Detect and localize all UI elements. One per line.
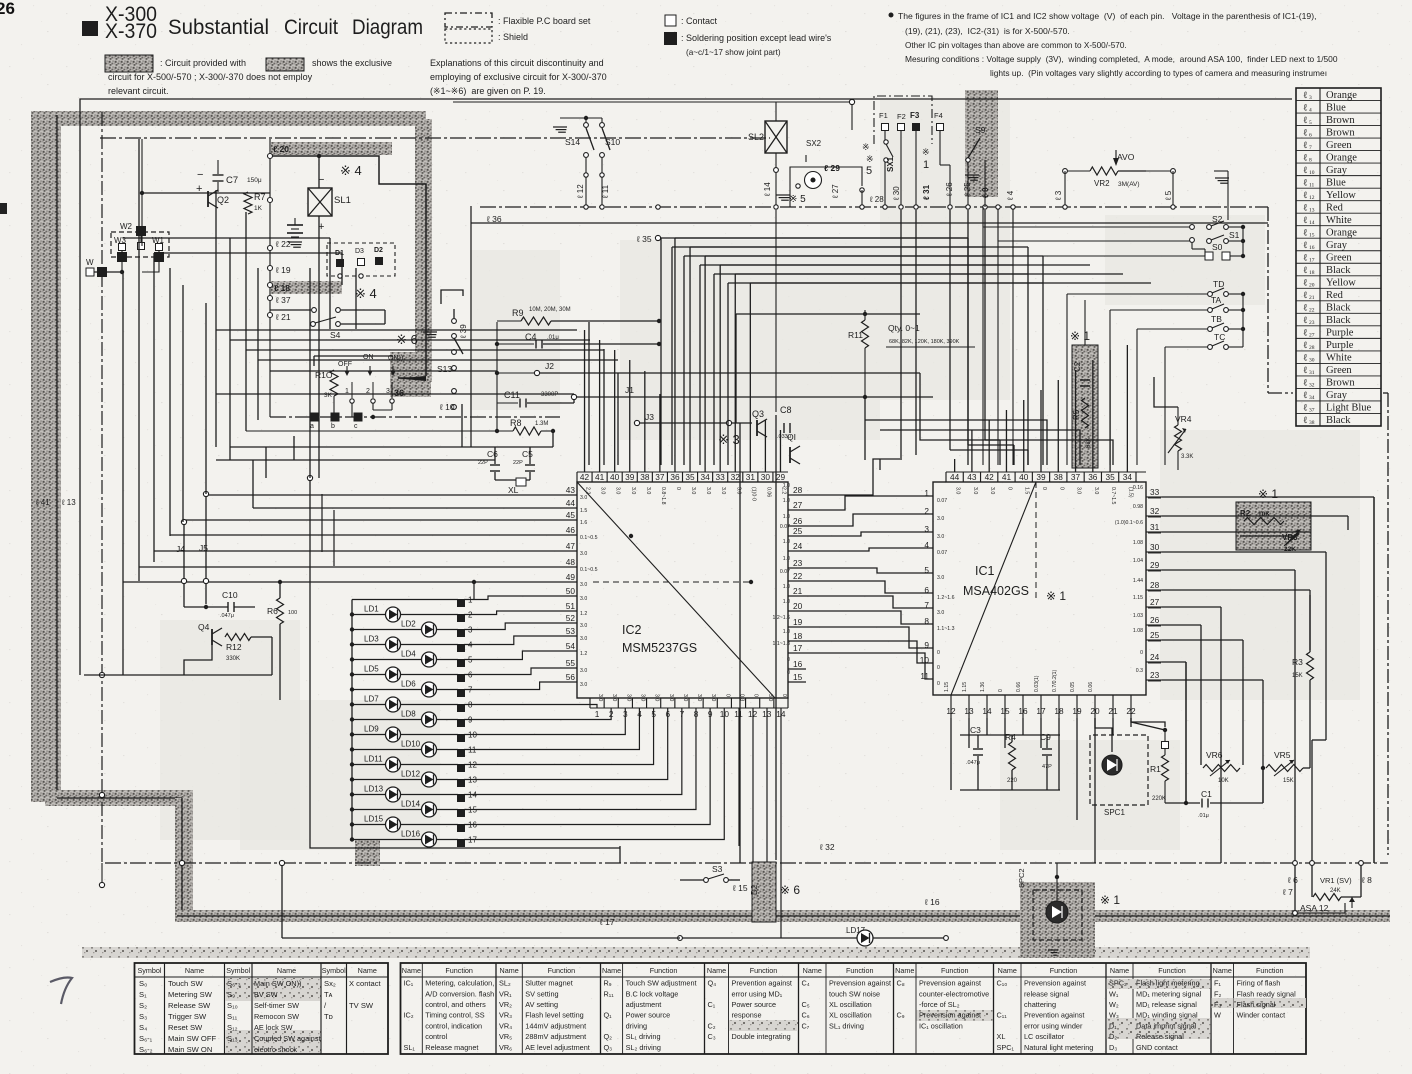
ground top left battery xyxy=(288,241,302,243)
svg-text:3.0: 3.0 xyxy=(654,694,660,701)
svg-text:F3: F3 xyxy=(910,111,920,120)
svg-text:0: 0 xyxy=(937,681,940,687)
ground SPC2 xyxy=(1048,949,1058,951)
svg-text:3.0: 3.0 xyxy=(937,516,944,522)
svg-text:LD6: LD6 xyxy=(401,680,416,689)
svg-text:0.16: 0.16 xyxy=(1133,485,1143,491)
svg-text:38: 38 xyxy=(1054,472,1064,482)
svg-text:ℓ 20: ℓ 20 xyxy=(273,144,289,154)
svg-text:Name: Name xyxy=(402,966,421,975)
svg-text:3.0: 3.0 xyxy=(580,551,587,557)
svg-text:1.2~1.6: 1.2~1.6 xyxy=(773,615,791,621)
svg-text:Sx₂: Sx₂ xyxy=(324,979,336,988)
svg-text:3.0: 3.0 xyxy=(611,694,617,701)
svg-text:D₁: D₁ xyxy=(1109,1021,1117,1030)
svg-text:47: 47 xyxy=(566,541,576,551)
hatch C2 R5 column xyxy=(1072,345,1098,468)
svg-text:QI: QI xyxy=(787,432,796,442)
svg-text:3.3K: 3.3K xyxy=(1181,454,1193,460)
svg-text:R9: R9 xyxy=(512,308,524,318)
wire LED line1 top drop xyxy=(473,582,475,600)
wire SL2 top xyxy=(453,101,852,103)
wire upper-left nest verticals xyxy=(329,238,331,329)
solenoid SL1 xyxy=(308,188,332,216)
svg-text:1.3M: 1.3M xyxy=(535,421,548,427)
svg-text:ℓ 29: ℓ 29 xyxy=(824,163,840,173)
svg-text:※ 5: ※ 5 xyxy=(789,194,806,205)
svg-text:ℓ 22: ℓ 22 xyxy=(275,239,291,249)
svg-text:ℓ: ℓ xyxy=(1303,228,1308,238)
svg-text:Black: Black xyxy=(1326,415,1351,426)
svg-text:employing of exclusive circuit: employing of exclusive circuit for X-300… xyxy=(430,72,607,82)
resistor R12 xyxy=(225,634,251,641)
svg-text:3.0: 3.0 xyxy=(690,487,696,494)
svg-text:ℓ: ℓ xyxy=(1303,316,1308,326)
svg-text:C10: C10 xyxy=(222,590,238,600)
svg-text:0: 0 xyxy=(937,665,940,671)
svg-text:68K, 82K, 120K, 180K, 390K: 68K, 82K, 120K, 180K, 390K xyxy=(889,339,960,345)
svg-text:1.0: 1.0 xyxy=(783,556,790,562)
svg-text:Brown: Brown xyxy=(1326,378,1355,389)
svg-text:42: 42 xyxy=(580,472,590,482)
shield band left xyxy=(31,111,61,802)
legend soldering square xyxy=(665,33,677,45)
svg-text:Release magnet: Release magnet xyxy=(425,1043,478,1052)
svg-text:VR6: VR6 xyxy=(1206,750,1223,760)
svg-text:F1: F1 xyxy=(879,111,888,120)
svg-text:J3: J3 xyxy=(645,412,654,422)
svg-text:S₆-₁: S₆-₁ xyxy=(139,1034,153,1043)
photodiode SPC2 block xyxy=(1020,882,1095,958)
svg-text:3.0: 3.0 xyxy=(972,487,978,494)
ground S14 xyxy=(553,126,567,128)
svg-text:Green: Green xyxy=(1326,140,1352,151)
legend contact square xyxy=(665,15,676,26)
svg-text:C₆: C₆ xyxy=(802,1011,810,1020)
svg-text:A/D conversion. flash: A/D conversion. flash xyxy=(425,989,494,998)
svg-text:ℓ 13: ℓ 13 xyxy=(61,498,76,507)
svg-text:1: 1 xyxy=(595,709,600,719)
shield band corner horizontal xyxy=(45,790,193,806)
svg-text:ℓ: ℓ xyxy=(1303,366,1308,376)
svg-text:S1: S1 xyxy=(1229,230,1240,240)
svg-text:S₃: S₃ xyxy=(139,1012,147,1021)
svg-text:Yellow: Yellow xyxy=(1326,278,1356,289)
svg-text:28: 28 xyxy=(1309,345,1315,351)
svg-text:Brown: Brown xyxy=(1326,127,1355,138)
svg-text:control, indication: control, indication xyxy=(425,1021,482,1030)
svg-text:Prevention against: Prevention against xyxy=(1024,1011,1084,1020)
wire R10 to bus xyxy=(333,396,335,417)
svg-text:C6: C6 xyxy=(487,449,498,459)
svg-text:※ 1: ※ 1 xyxy=(1100,893,1120,907)
dash-dot bus middle xyxy=(480,206,1268,208)
svg-text:Qty. 0~1: Qty. 0~1 xyxy=(888,323,920,333)
svg-text:3K: 3K xyxy=(324,392,333,399)
svg-text:ℓ 12: ℓ 12 xyxy=(576,184,585,199)
svg-text:3.0: 3.0 xyxy=(580,682,587,688)
svg-text:24K: 24K xyxy=(1330,888,1341,894)
svg-text:ℓ: ℓ xyxy=(1303,304,1308,314)
svg-text:Function: Function xyxy=(1158,966,1186,975)
svg-text:Diagram: Diagram xyxy=(352,16,423,39)
svg-text:38: 38 xyxy=(640,472,650,482)
svg-text:J5: J5 xyxy=(199,543,208,553)
svg-text:X contact: X contact xyxy=(349,979,382,988)
svg-text:Yellow: Yellow xyxy=(1326,190,1356,201)
svg-text:24: 24 xyxy=(1150,652,1160,662)
dash-dot bus bottom xyxy=(105,862,1388,864)
svg-text:The figures in the frame of IC: The figures in the frame of IC1 and IC2 … xyxy=(898,11,1316,21)
svg-text:ℓ 3: ℓ 3 xyxy=(1054,190,1063,201)
svg-text:ℓ 7: ℓ 7 xyxy=(1282,887,1293,897)
wire l20 column xyxy=(294,145,296,163)
svg-text:Brown: Brown xyxy=(1326,115,1355,126)
svg-text:41: 41 xyxy=(1002,472,1012,482)
dash-dot bus right vertical xyxy=(1267,207,1269,393)
svg-text:Power source: Power source xyxy=(732,1000,777,1009)
svg-text:Orange: Orange xyxy=(1326,152,1357,163)
svg-text:Black: Black xyxy=(1326,265,1351,276)
svg-text:R4: R4 xyxy=(1005,732,1016,742)
svg-text:LD5: LD5 xyxy=(364,665,379,674)
svg-text:Flash ready signal: Flash ready signal xyxy=(1237,989,1297,998)
svg-text:3.0: 3.0 xyxy=(580,668,587,674)
svg-text:VR₅: VR₅ xyxy=(499,1032,512,1041)
svg-text:Prevension against: Prevension against xyxy=(919,979,981,988)
svg-text:21: 21 xyxy=(793,586,803,596)
svg-text:3.0: 3.0 xyxy=(710,694,716,701)
svg-text:AE level adjustment: AE level adjustment xyxy=(525,1043,590,1052)
svg-text:32: 32 xyxy=(1150,506,1160,516)
svg-text:lights up. (Pin voltages vary: lights up. (Pin voltages vary slightly a… xyxy=(990,68,1327,78)
svg-text:release signal: release signal xyxy=(1024,989,1069,998)
svg-text:Name: Name xyxy=(803,966,822,975)
svg-text:C2: C2 xyxy=(1073,361,1082,372)
svg-text:0.07: 0.07 xyxy=(780,569,790,575)
svg-text:ℓ: ℓ xyxy=(1303,178,1308,188)
svg-text:0: 0 xyxy=(781,694,787,697)
svg-text:Symbol: Symbol xyxy=(138,966,162,975)
svg-text:Substantial: Substantial xyxy=(168,16,269,39)
svg-text:Prevension against: Prevension against xyxy=(919,1011,981,1020)
svg-text:C₉: C₉ xyxy=(897,1011,905,1020)
svg-text:: Contact: : Contact xyxy=(681,16,718,26)
svg-text:3.0: 3.0 xyxy=(615,487,621,494)
svg-text:MSA402GS: MSA402GS xyxy=(963,584,1029,598)
svg-text:Q₂: Q₂ xyxy=(604,1032,613,1041)
IC1 top pin comb xyxy=(946,471,1146,473)
svg-text:37: 37 xyxy=(1309,408,1315,414)
svg-text:AV setting: AV setting xyxy=(525,1000,558,1009)
svg-text:3: 3 xyxy=(1309,95,1312,101)
resistor R1 xyxy=(1162,742,1169,749)
shield line mid vertical xyxy=(181,798,183,922)
legend shield box xyxy=(445,29,492,43)
svg-text:Purple: Purple xyxy=(1326,328,1354,339)
svg-text:7: 7 xyxy=(1309,145,1312,151)
svg-text:VR₂: VR₂ xyxy=(499,1000,512,1009)
svg-text:W₂: W₂ xyxy=(1109,1000,1119,1009)
svg-text:56: 56 xyxy=(566,672,576,682)
svg-text:S₁₀: S₁₀ xyxy=(227,1001,238,1010)
svg-text:ℓ: ℓ xyxy=(1303,354,1308,364)
svg-text:LD2: LD2 xyxy=(401,620,416,629)
photodiode SPC1 block xyxy=(1090,735,1148,805)
svg-text:(1.0)0.1~0.6: (1.0)0.1~0.6 xyxy=(1115,520,1143,526)
wire staircase J to IC1 xyxy=(865,420,1047,465)
svg-text:LD11: LD11 xyxy=(364,755,383,764)
svg-text:LD3: LD3 xyxy=(364,635,379,644)
wire pin24 drop join xyxy=(1185,662,1187,803)
svg-text:R1: R1 xyxy=(1150,764,1161,774)
svg-text:ℓ 5: ℓ 5 xyxy=(1164,190,1173,201)
svg-text:Tᴅ: Tᴅ xyxy=(324,1012,333,1021)
svg-text:AE lock SW: AE lock SW xyxy=(254,1023,293,1032)
transistor Q2 xyxy=(207,191,209,207)
svg-text:33: 33 xyxy=(1150,487,1160,497)
svg-text:0.03(1): 0.03(1) xyxy=(1034,675,1040,692)
svg-text:1.5: 1.5 xyxy=(1024,487,1030,494)
ground right of VR2 xyxy=(1215,177,1229,179)
svg-text:Trigger SW: Trigger SW xyxy=(168,1012,207,1021)
svg-text:0: 0 xyxy=(724,694,730,697)
wire Q4 bottom xyxy=(184,645,212,675)
svg-text:ℓ 21: ℓ 21 xyxy=(275,312,291,322)
svg-text:S₁: S₁ xyxy=(139,990,147,999)
svg-text:27: 27 xyxy=(1150,597,1160,607)
svg-text:30: 30 xyxy=(1309,358,1315,364)
wire pin22 to R1 xyxy=(1131,718,1165,727)
svg-text:※ 4: ※ 4 xyxy=(355,286,377,301)
svg-text:SPC1: SPC1 xyxy=(1104,808,1125,817)
wire IC1 right fan xyxy=(1162,496,1374,498)
svg-text:0.3: 0.3 xyxy=(1136,668,1143,674)
svg-text:LD7: LD7 xyxy=(364,695,379,704)
svg-text:S13: S13 xyxy=(437,364,452,374)
LED joint lines xyxy=(352,599,458,601)
svg-text:error using MD₁: error using MD₁ xyxy=(732,989,783,998)
svg-text:49: 49 xyxy=(566,572,576,582)
svg-text:39: 39 xyxy=(625,472,635,482)
svg-text:0: 0 xyxy=(787,670,790,676)
svg-text:1.15: 1.15 xyxy=(944,682,950,692)
svg-text:Touch SW adjustment: Touch SW adjustment xyxy=(626,979,697,988)
svg-text:Black: Black xyxy=(1326,315,1351,326)
svg-text:Timing control, SS: Timing control, SS xyxy=(425,1011,484,1020)
svg-text:touch SW noise: touch SW noise xyxy=(829,989,880,998)
svg-text:Firing of flash: Firing of flash xyxy=(1237,979,1281,988)
svg-text:C₁₁: C₁₁ xyxy=(997,1011,1008,1020)
svg-text:5: 5 xyxy=(1309,120,1312,126)
svg-text:3.0: 3.0 xyxy=(580,623,587,629)
svg-text:Name: Name xyxy=(998,966,1017,975)
svg-text:error using winder: error using winder xyxy=(1024,1021,1083,1030)
svg-text:25: 25 xyxy=(1150,630,1160,640)
svg-text:15: 15 xyxy=(1309,232,1315,238)
svg-text:0: 0 xyxy=(753,694,759,697)
svg-text:SPC₁: SPC₁ xyxy=(997,1043,1015,1052)
svg-text:SL₂: SL₂ xyxy=(499,979,511,988)
svg-text:C9: C9 xyxy=(1040,732,1051,742)
svg-text:※ 4: ※ 4 xyxy=(340,163,362,178)
svg-text:VR5: VR5 xyxy=(1274,750,1291,760)
svg-text:Slutter magnet: Slutter magnet xyxy=(525,979,572,988)
wire ladder rows to left xyxy=(983,226,1190,228)
svg-text:ℓ: ℓ xyxy=(1303,103,1308,113)
svg-text:ℓ: ℓ xyxy=(1303,166,1308,176)
svg-text:Name: Name xyxy=(500,966,519,975)
svg-text:32: 32 xyxy=(731,472,741,482)
svg-text:3.0: 3.0 xyxy=(937,575,944,581)
svg-text:1.2~1.6: 1.2~1.6 xyxy=(937,595,955,601)
svg-text:J2: J2 xyxy=(545,361,554,371)
svg-text:ℓ 18: ℓ 18 xyxy=(274,283,290,293)
svg-text:1.0: 1.0 xyxy=(783,514,790,520)
svg-text:1.1~1.3: 1.1~1.3 xyxy=(773,641,791,647)
svg-text:LD8: LD8 xyxy=(401,710,416,719)
wire verticals upper mid xyxy=(215,190,217,447)
svg-text:Flash signal: Flash signal xyxy=(1237,1000,1276,1009)
legend hatched sample 2 xyxy=(266,58,304,71)
svg-text:ℓ 35: ℓ 35 xyxy=(636,234,652,244)
svg-text:5: 5 xyxy=(866,165,872,177)
svg-text:Function: Function xyxy=(650,966,678,975)
svg-text:Green: Green xyxy=(1326,365,1352,376)
svg-text:S0: S0 xyxy=(1212,242,1223,252)
svg-text:SV setting: SV setting xyxy=(525,989,558,998)
svg-text:12: 12 xyxy=(1309,195,1315,201)
svg-text:3.0: 3.0 xyxy=(580,636,587,642)
svg-text:0.1~0.5: 0.1~0.5 xyxy=(580,567,598,573)
svg-text:※ 3: ※ 3 xyxy=(718,432,740,447)
svg-text:3.0: 3.0 xyxy=(989,487,995,494)
svg-text:44: 44 xyxy=(950,472,960,482)
svg-text:S₉: S₉ xyxy=(227,990,235,999)
svg-text:1.36: 1.36 xyxy=(980,682,986,692)
svg-text:ℓ: ℓ xyxy=(1303,116,1308,126)
svg-text:C5: C5 xyxy=(522,449,533,459)
svg-text:VR1 (SV): VR1 (SV) xyxy=(1320,876,1352,885)
wire IC2 bottom pin drops xyxy=(738,708,740,846)
svg-text:30: 30 xyxy=(1150,542,1160,552)
svg-text:31: 31 xyxy=(1309,370,1315,376)
svg-text:22P: 22P xyxy=(513,460,523,466)
svg-text:SPC₂: SPC₂ xyxy=(1109,979,1127,988)
svg-text:ℓ 27: ℓ 27 xyxy=(831,184,840,199)
svg-text:IC₁: IC₁ xyxy=(404,979,414,988)
svg-text:1.15: 1.15 xyxy=(1133,595,1143,601)
svg-text:.047μ: .047μ xyxy=(220,613,234,619)
IC2 diagonal xyxy=(577,482,775,698)
wire ladder collector vertical xyxy=(1242,227,1244,256)
svg-text:ℓ 28: ℓ 28 xyxy=(869,195,884,204)
svg-text:SL₁ driving: SL₁ driving xyxy=(829,1021,864,1030)
legend hatched sample 1 xyxy=(105,55,153,72)
svg-text:0.05: 0.05 xyxy=(1070,682,1076,692)
svg-text:1.08: 1.08 xyxy=(1133,540,1143,546)
svg-text:F2: F2 xyxy=(897,112,906,121)
battery xyxy=(287,224,303,226)
svg-text:18: 18 xyxy=(1309,270,1315,276)
svg-text:R5: R5 xyxy=(1072,409,1081,420)
svg-text:3.0: 3.0 xyxy=(630,487,636,494)
svg-text:SL2: SL2 xyxy=(748,132,764,142)
shield line bottom xyxy=(177,915,1390,917)
svg-text:0: 0 xyxy=(1006,487,1012,490)
svg-text:0.7~1.5: 0.7~1.5 xyxy=(1110,487,1116,505)
svg-text:ℓ: ℓ xyxy=(1303,416,1308,426)
svg-text:Name: Name xyxy=(895,966,914,975)
svg-text:3.0: 3.0 xyxy=(955,487,961,494)
svg-text:68K: 68K xyxy=(1086,437,1092,448)
svg-text:Tᴀ: Tᴀ xyxy=(324,990,333,999)
svg-text:1.6: 1.6 xyxy=(580,520,587,526)
svg-text:Coupled SW against: Coupled SW against xyxy=(254,1034,321,1043)
wire long rows to right ladder xyxy=(675,237,968,239)
wire l35 fan xyxy=(655,235,660,240)
wire IC2 left fan verticals xyxy=(252,460,254,508)
svg-text:0: 0 xyxy=(1058,487,1064,490)
LED bank left rail xyxy=(351,600,353,840)
svg-text:Name: Name xyxy=(277,966,296,975)
svg-text:53: 53 xyxy=(566,626,576,636)
svg-text:3.0: 3.0 xyxy=(625,694,631,701)
svg-text:※: ※ xyxy=(862,142,870,152)
wire mid verticals long xyxy=(864,397,866,460)
svg-text:Explanations of this circuit d: Explanations of this circuit discontinui… xyxy=(430,58,604,68)
svg-text:F₃: F₃ xyxy=(1214,1000,1221,1009)
svg-text:VR₆: VR₆ xyxy=(499,1043,512,1052)
svg-text:Main SW ON: Main SW ON xyxy=(168,1045,212,1054)
svg-text:C11: C11 xyxy=(504,390,520,400)
svg-text:1.0: 1.0 xyxy=(783,599,790,605)
svg-text:W: W xyxy=(86,258,94,267)
wire pin20 to SPC1 xyxy=(1095,718,1112,752)
svg-text:Function: Function xyxy=(941,966,969,975)
svg-text:39: 39 xyxy=(1036,472,1046,482)
svg-text:D3: D3 xyxy=(355,248,364,255)
svg-text:W: W xyxy=(1214,1011,1221,1020)
svg-text:ℓ 14: ℓ 14 xyxy=(763,182,772,197)
svg-text:Purple: Purple xyxy=(1326,340,1354,351)
svg-text:18: 18 xyxy=(793,631,803,641)
shield line left xyxy=(56,115,58,798)
svg-text:VR₁: VR₁ xyxy=(499,989,512,998)
svg-text:26: 26 xyxy=(1150,615,1160,625)
svg-text:Reset SW: Reset SW xyxy=(168,1023,203,1032)
svg-text:SX2: SX2 xyxy=(806,139,822,148)
svg-text:Touch SW: Touch SW xyxy=(168,979,203,988)
wire VR1 risers xyxy=(1311,865,1313,897)
svg-text:Orange: Orange xyxy=(1326,90,1357,101)
note voltages bullet xyxy=(889,13,894,18)
svg-text:ℓ 19: ℓ 19 xyxy=(275,265,291,275)
IC2 top pin comb xyxy=(577,471,788,473)
svg-text:1.5: 1.5 xyxy=(580,508,587,514)
svg-text:W2: W2 xyxy=(120,222,133,231)
svg-text:LC oscillator: LC oscillator xyxy=(1024,1032,1065,1041)
svg-text:0.07: 0.07 xyxy=(937,498,947,504)
svg-text:IC1: IC1 xyxy=(975,564,995,578)
wire S13 top hook xyxy=(441,290,463,304)
svg-text:VR2: VR2 xyxy=(1094,179,1110,188)
svg-text:14: 14 xyxy=(1309,220,1315,226)
svg-text:ℓ 41: ℓ 41 xyxy=(35,498,50,507)
svg-text:c: c xyxy=(354,423,358,430)
svg-text:Function: Function xyxy=(1050,966,1078,975)
svg-text:S9: S9 xyxy=(975,125,986,135)
